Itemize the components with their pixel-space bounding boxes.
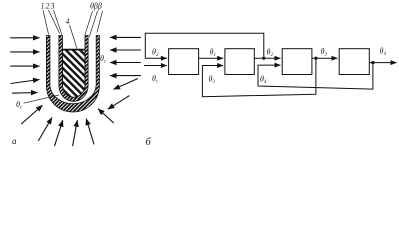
junction dot theta4 [371, 61, 374, 64]
left heat-flux arrow 5 [12, 92, 38, 95]
bottom fan arrow A [21, 105, 42, 124]
filler block 4 [63, 50, 86, 97]
svg-text:θ2: θ2 [152, 48, 159, 59]
leader 2 [49, 10, 60, 34]
leader 3 [54, 10, 62, 35]
leader 4 [70, 25, 78, 49]
box 2 [225, 49, 254, 75]
junction dot theta3 [314, 57, 317, 60]
left heat-flux arrow 3 [10, 65, 39, 67]
block top line [63, 49, 86, 51]
arrow box3 to box4 [312, 57, 338, 59]
svg-text:θ4: θ4 [260, 75, 267, 86]
junction dot theta2 [262, 57, 265, 60]
right heat-flux arrow 4 [110, 75, 141, 77]
arrow box1 to box2 [199, 57, 224, 59]
svg-text:θc: θc [100, 54, 107, 65]
right heat-flux arrow 3 [110, 62, 141, 64]
left heat-flux arrow 4 [11, 80, 40, 84]
left heat-flux arrow 2 [10, 51, 39, 53]
svg-text:θ3: θ3 [321, 47, 328, 58]
bottom fan arrow D [73, 120, 78, 146]
bottom fan arrow B [38, 118, 52, 142]
svg-text:θ3: θ3 [209, 75, 216, 86]
svg-text:1: 1 [41, 2, 45, 11]
svg-text:θ4: θ4 [380, 47, 387, 58]
leader t1 [85, 11, 93, 35]
right diagonal arrow 1 [114, 79, 138, 90]
box 1 [169, 49, 199, 75]
svg-text:2: 2 [46, 2, 50, 11]
right diagonal arrow 2 [108, 96, 130, 110]
left heat-flux arrow 1 [10, 37, 39, 39]
svg-text:4: 4 [66, 17, 70, 26]
top feedback line theta2 [145, 33, 263, 58]
leader t3 [97, 11, 103, 33]
leader t2 [89, 11, 97, 37]
output arrow theta4 [369, 62, 396, 64]
bottom fan arrow C [55, 120, 63, 146]
outer protective tube wall [46, 36, 99, 113]
svg-text:б: б [146, 137, 152, 148]
right heat-flux arrow 2 [110, 49, 141, 51]
svg-text:а: а [12, 136, 17, 146]
feedback theta4 into box3 [258, 63, 373, 90]
input theta-c arrow [144, 65, 167, 67]
leader theta-c [24, 95, 59, 103]
box 4 [339, 49, 369, 75]
box 3 [282, 49, 312, 75]
svg-text:θ1: θ1 [210, 48, 216, 59]
svg-text:θc: θc [152, 74, 159, 85]
leader 1 [43, 10, 49, 35]
bottom fan arrow F [98, 109, 114, 123]
arrow box2 to box3 [254, 57, 280, 59]
svg-text:θc: θc [16, 100, 23, 111]
right heat-flux arrow 1 [110, 36, 141, 38]
svg-text:θββ: θββ [90, 2, 102, 11]
inner tube wall [59, 36, 88, 102]
bottom fan arrow E [86, 119, 94, 145]
svg-text:θ2: θ2 [267, 48, 274, 59]
svg-text:3: 3 [50, 2, 55, 11]
feedback theta3 into box2 [202, 58, 316, 96]
